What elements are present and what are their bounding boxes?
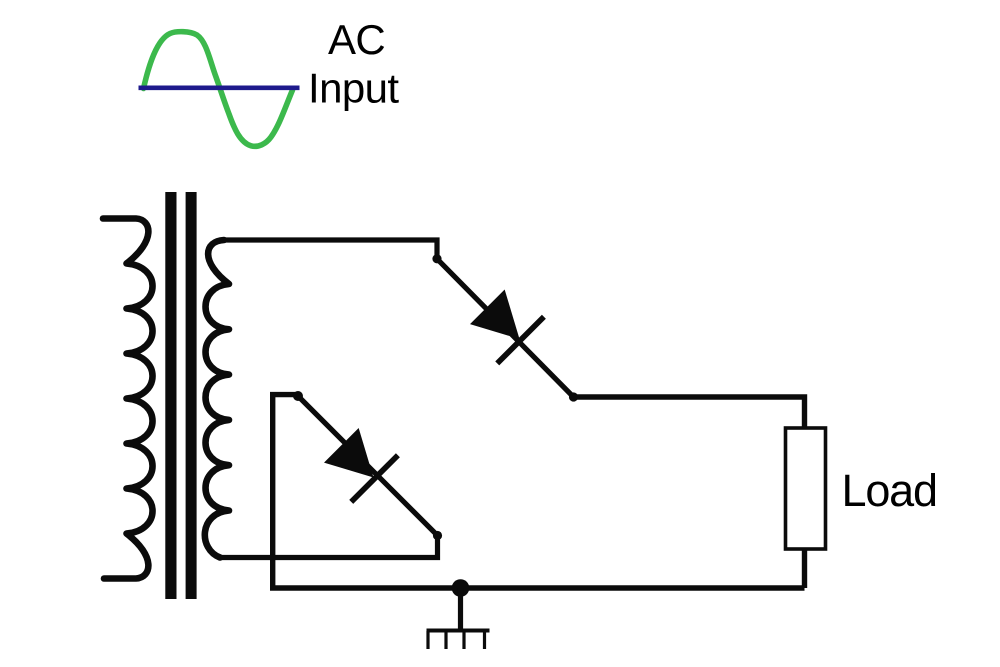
node: D1 cathode dot bbox=[569, 392, 578, 401]
node: D2 cathode dot bbox=[433, 531, 442, 540]
wire: D2 diagonal bbox=[298, 396, 438, 536]
AC input sine waveform (green) bbox=[144, 32, 293, 147]
svg-text:Input: Input bbox=[308, 65, 399, 112]
wire: load bottom to bottom rail bbox=[802, 549, 807, 588]
diode D1 (arrow + crossing cathode bar) bbox=[464, 283, 544, 363]
transformer core bar 2 bbox=[186, 192, 197, 599]
svg-text:AC: AC bbox=[328, 16, 385, 63]
wire: D1 cathode to load top bbox=[574, 397, 805, 429]
wire: D2 cathode down to secondary-bottom wire bbox=[221, 536, 438, 558]
AC input axis line (blue) bbox=[139, 86, 300, 91]
transformer T1 secondary winding bbox=[205, 240, 229, 558]
load resistor R1 bbox=[786, 428, 826, 549]
node: ground junction dot bbox=[452, 579, 470, 597]
svg-text:Load: Load bbox=[842, 465, 937, 516]
ground symbol bbox=[427, 631, 490, 650]
wire: D1 diagonal bbox=[437, 259, 574, 397]
diode D2 (arrow + crossing cathode bar) bbox=[318, 422, 398, 502]
wire: junction to ground bbox=[458, 588, 463, 629]
node: D1 anode dot bbox=[432, 254, 441, 263]
transformer core bar 1 bbox=[165, 192, 176, 599]
node: D2 anode dot bbox=[293, 391, 303, 401]
wire: D2 anode branch (corner + vertical + bottom rail) bbox=[273, 395, 805, 588]
transformer T1 primary winding bbox=[103, 219, 153, 579]
wire: secondary top to D1 anode corner bbox=[222, 240, 437, 256]
